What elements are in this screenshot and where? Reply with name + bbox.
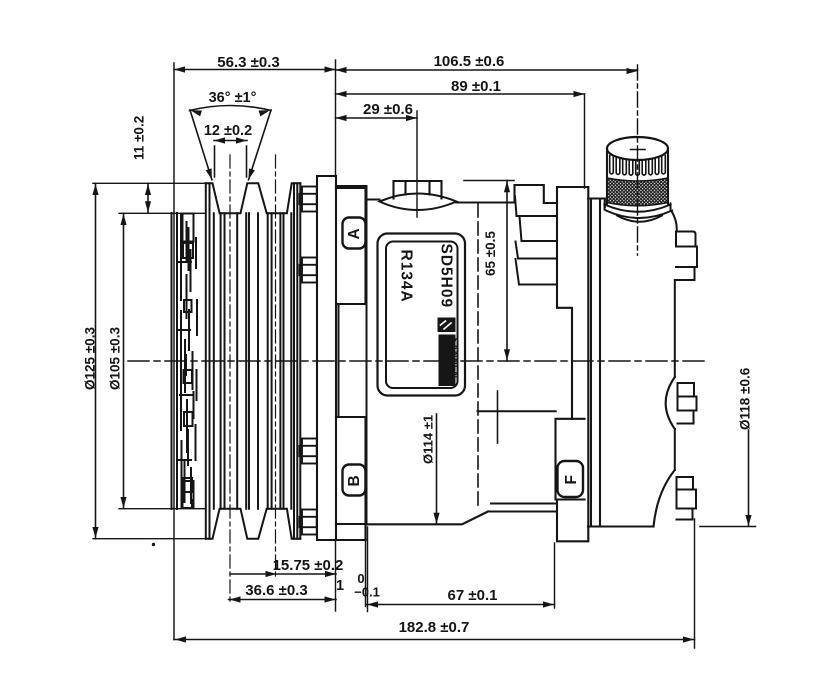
label plate (rounded) <box>378 234 466 396</box>
svg-text:36.6 ±0.3: 36.6 ±0.3 <box>245 582 307 599</box>
F port boss block <box>556 419 585 500</box>
svg-text:36° ±1°: 36° ±1° <box>209 90 257 106</box>
compressor body front face <box>366 186 368 524</box>
pulley groove wall projection lines <box>214 213 291 508</box>
rear head bolt 3 <box>677 477 697 520</box>
svg-text:F: F <box>563 475 580 484</box>
dimension texts <box>83 53 753 636</box>
dimension 65±0.5 line <box>464 181 514 362</box>
svg-text:−0.1: −0.1 <box>354 585 380 600</box>
clutch rotor mounting bolts (4) <box>300 187 317 535</box>
svg-text:SD5H09: SD5H09 <box>438 244 455 309</box>
svg-text:Ø114 ±1: Ø114 ±1 <box>421 415 436 464</box>
cylinder head gasket lines <box>588 199 654 527</box>
extension lines <box>93 60 695 648</box>
clutch gap extensions <box>366 527 368 612</box>
rear face of rotor extension to 15.75/36.6 <box>335 541 337 611</box>
dimension Ø105±0.3 line <box>123 213 125 508</box>
29 extension to top bolt centre <box>416 111 418 217</box>
clutch armature internal details (leaf springs / rivets) <box>179 214 197 509</box>
clutch rotor rear plate <box>317 176 366 540</box>
svg-text:56.3 ±0.3: 56.3 ±0.3 <box>217 54 279 71</box>
top mounting boss (lens) <box>380 194 457 211</box>
dimension 12±0.2 line <box>214 141 247 178</box>
centerlines <box>128 65 709 603</box>
svg-text:67 ±0.1: 67 ±0.1 <box>448 587 498 604</box>
compressor body outline <box>336 185 557 524</box>
dimension 15.75±0.2 line <box>230 573 336 575</box>
rear head bolt 2 boss <box>666 377 675 429</box>
svg-text:SANDEN: SANDEN <box>450 338 460 379</box>
dimension Ø125±0.3 line <box>95 183 97 538</box>
mounting ear block B <box>336 417 366 540</box>
body joint line <box>477 204 479 509</box>
dimension 56.3±0.3 line <box>174 69 336 71</box>
svg-text:182.8 ±0.7: 182.8 ±0.7 <box>399 619 470 636</box>
body bottom edge <box>367 504 557 525</box>
oil filler cap base flange arcs <box>605 204 673 222</box>
svg-text:106.5 ±0.6: 106.5 ±0.6 <box>434 53 505 70</box>
shared extension at clutch rear face <box>335 60 337 176</box>
pulley (2-groove, Ø125) <box>206 183 300 538</box>
dimension 36.6±0.3 line <box>229 599 337 601</box>
body top edge front section <box>336 186 380 200</box>
dimension 182.8±0.7 line <box>174 639 695 641</box>
mounting ear block A <box>336 188 366 304</box>
clutch front plate (armature, Ø105) <box>172 213 178 509</box>
short rib line <box>497 391 499 443</box>
dimension 11±0.2 line <box>147 183 149 213</box>
svg-text:11 ±0.2: 11 ±0.2 <box>132 116 147 160</box>
oil filler cap castellations <box>610 156 666 176</box>
port plaque A <box>343 218 366 249</box>
angular dimension 36°±1° fan and arc <box>190 106 272 180</box>
89 extension down to body <box>584 94 586 188</box>
pulley outer rim edges <box>206 183 300 538</box>
rear head bolt 3 boss <box>654 470 675 527</box>
dimension 89±0.1 line <box>336 93 585 95</box>
groove root bottom extension <box>119 508 206 510</box>
svg-text:15.75 ±0.2: 15.75 ±0.2 <box>273 557 344 574</box>
groove root top extension <box>119 212 206 214</box>
svg-text:A: A <box>346 228 363 239</box>
svg-text:Ø125 ±0.3: Ø125 ±0.3 <box>83 327 98 390</box>
dimension 106.5±0.6 line <box>336 69 638 71</box>
service valve boss column <box>556 187 589 541</box>
oil filler cap knurl band <box>607 178 668 206</box>
hex bolt on top boss <box>394 181 442 199</box>
port plaque B <box>343 465 366 496</box>
head edge between bolts 2-3 <box>674 429 676 470</box>
rear head bolt 2 <box>678 383 697 424</box>
body top edge mid section <box>457 185 558 203</box>
SANDEN wordmark block (reversed) <box>439 335 456 387</box>
dimension 67±0.1 line <box>367 604 555 606</box>
pulley OD bottom extension <box>93 538 206 540</box>
head bottom edge <box>588 525 654 527</box>
oil filler cap top ellipse <box>607 137 668 160</box>
Sanden logo block <box>438 318 456 333</box>
svg-text:65 ±0.5: 65 ±0.5 <box>483 231 498 276</box>
svg-text:R134A: R134A <box>398 250 415 303</box>
front face reference / 56.3-182.8 extension <box>173 63 175 640</box>
pulley top silhouette <box>206 183 300 213</box>
67 right extension <box>554 543 556 608</box>
port plaque F <box>558 461 584 497</box>
svg-text:89 ±0.1: 89 ±0.1 <box>451 78 501 95</box>
head edge between bolts 1-2 <box>674 280 676 377</box>
svg-text:1: 1 <box>336 578 344 594</box>
dimension Ø114±1 line <box>436 414 438 524</box>
pulley OD top extension <box>93 182 206 184</box>
svg-text:Ø118 ±0.6: Ø118 ±0.6 <box>738 367 753 430</box>
pulley bottom silhouette <box>206 509 300 539</box>
oil filler cap sides <box>607 150 668 204</box>
stray scan dot <box>152 543 155 546</box>
rear head bolt 1 (top) <box>676 232 697 281</box>
svg-text:12 ±0.2: 12 ±0.2 <box>204 123 252 139</box>
oil filler cap centre tick <box>631 149 646 151</box>
svg-text:Ø105 ±0.3: Ø105 ±0.3 <box>108 327 123 390</box>
182.8 right extension <box>694 519 696 648</box>
rear head right shoulder <box>672 212 677 232</box>
fitting shelves on cylinder head side <box>478 197 558 412</box>
dimension Ø118±0.6 line <box>700 430 756 527</box>
front housing face between ears <box>339 186 367 524</box>
svg-text:B: B <box>346 475 363 486</box>
dimension 29±0.6 line <box>336 117 418 119</box>
svg-text:29 ±0.6: 29 ±0.6 <box>363 101 413 118</box>
